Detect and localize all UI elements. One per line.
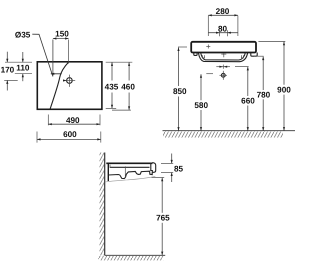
front view tap hole mark xyxy=(206,46,210,48)
svg-text:110: 110 xyxy=(16,63,30,72)
extension line bottom right 460 xyxy=(112,109,131,111)
drain mark arrows xyxy=(216,66,230,68)
front view bowl outer xyxy=(198,53,247,62)
extension line bowl right xyxy=(235,65,249,67)
side profile inner left edge xyxy=(109,165,111,168)
side profile underside and bosses xyxy=(108,171,152,178)
front view right tab xyxy=(251,53,257,57)
svg-text:280: 280 xyxy=(216,7,230,16)
side profile thin install line xyxy=(105,176,155,182)
bowl left notch xyxy=(203,55,205,58)
trap circle xyxy=(221,73,225,77)
svg-text:850: 850 xyxy=(173,87,187,96)
plan view basin outline xyxy=(37,62,102,110)
side profile boss tick xyxy=(124,166,126,177)
tap hole crosshair xyxy=(64,80,76,82)
side view floor line xyxy=(105,254,166,256)
extension line bottom right 435 xyxy=(106,107,117,109)
leader line Ø35 xyxy=(32,34,53,76)
extension line top edge left xyxy=(5,61,32,63)
side view wall hatch xyxy=(100,153,105,256)
front view floor line xyxy=(163,130,296,132)
svg-text:Ø35: Ø35 xyxy=(15,30,31,39)
svg-text:765: 765 xyxy=(156,214,170,223)
svg-text:660: 660 xyxy=(241,96,255,105)
plan basin interior curve xyxy=(50,62,69,109)
svg-text:900: 900 xyxy=(277,85,291,94)
dim 150 line xyxy=(53,38,69,40)
front view bowl inner xyxy=(201,53,246,60)
side view wall line xyxy=(104,153,106,256)
extension line top edge right xyxy=(106,61,133,63)
svg-text:580: 580 xyxy=(194,101,208,110)
svg-text:600: 600 xyxy=(63,130,77,139)
side view floor hatch xyxy=(99,256,164,261)
svg-text:780: 780 xyxy=(257,90,271,99)
extension line hole row left xyxy=(15,73,32,75)
front view rim xyxy=(191,42,256,53)
side profile top xyxy=(106,162,152,164)
svg-text:435: 435 xyxy=(105,82,119,91)
svg-text:460: 460 xyxy=(121,82,135,91)
svg-text:490: 490 xyxy=(66,116,80,125)
tap hole pointer arrow xyxy=(51,73,62,75)
dim 150 extension lines xyxy=(52,40,54,76)
extension line circle row left xyxy=(4,79,18,81)
side profile rear vertical xyxy=(107,163,109,181)
svg-text:85: 85 xyxy=(174,164,184,173)
side profile inner line xyxy=(110,166,150,168)
side profile front lip xyxy=(151,163,156,173)
front view left tab xyxy=(194,53,197,56)
bowl center tick xyxy=(223,53,225,57)
extension line trap left xyxy=(206,73,213,75)
tap hole circle C xyxy=(67,78,73,84)
svg-text:150: 150 xyxy=(55,30,69,39)
front view floor hatch xyxy=(163,131,283,137)
svg-text:170: 170 xyxy=(1,65,15,74)
bowl right notch xyxy=(241,55,243,58)
